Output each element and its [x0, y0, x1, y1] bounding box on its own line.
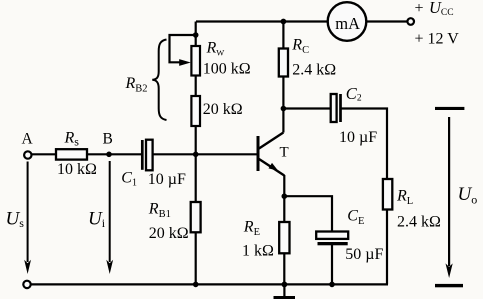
ammeter mA [328, 2, 367, 41]
capacitor CE bottom plate [318, 242, 348, 245]
capacitor C1 right plate (hollow) [146, 140, 153, 171]
node supply bus junction dot [281, 19, 287, 25]
capacitor C2 left plate (hollow) [331, 94, 337, 122]
svg-text:C1: C1 [121, 170, 137, 189]
wire collector node to C2 [283, 107, 330, 109]
svg-text:C2: C2 [346, 84, 362, 104]
resistor Rs [56, 149, 87, 159]
svg-text:RL: RL [396, 188, 413, 208]
wire emitter node to CE top [284, 196, 332, 231]
wire RE bottom to ground bus [283, 253, 285, 284]
arrow Us [27, 162, 29, 263]
svg-text:Rs: Rs [64, 130, 80, 149]
svg-text:+UCC: +UCC [415, 0, 454, 18]
ground symbol [274, 296, 296, 299]
wire bottom ground bus [31, 283, 388, 285]
node RE ground junction dot [282, 282, 288, 288]
resistor RB1 [191, 202, 201, 232]
svg-text:10 kΩ: 10 kΩ [57, 161, 97, 178]
capacitor C2 right plate [339, 94, 342, 122]
svg-text:+ 12 V: + 12 V [415, 31, 460, 48]
wire RL bottom to ground bus [386, 210, 388, 285]
node base junction dot [193, 152, 199, 158]
svg-text:2.4 kΩ: 2.4 kΩ [292, 62, 336, 79]
resistor RE [279, 222, 289, 253]
wire emitter down to RE [283, 175, 285, 222]
capacitor C1 left plate [141, 140, 144, 170]
svg-text:RE: RE [243, 219, 260, 239]
transistor T collector lead [259, 133, 283, 149]
svg-text:RB2: RB2 [125, 75, 148, 95]
svg-text:Uo: Uo [458, 184, 478, 207]
node B junction dot [106, 152, 112, 158]
node collector junction dot [281, 106, 287, 112]
arrow Ui [109, 161, 111, 262]
wire RB1 top [195, 154, 197, 202]
node RB1 ground junction dot [193, 282, 199, 288]
svg-text:RW: RW [206, 40, 225, 58]
svg-text:RC: RC [291, 37, 309, 57]
terminal A circle [24, 151, 31, 158]
wire top supply bus [196, 20, 408, 22]
potentiometer wiper arm wire [170, 35, 196, 62]
resistor RC [279, 49, 288, 77]
svg-text:50 µF: 50 µF [345, 246, 383, 263]
svg-text:10 µF: 10 µF [148, 171, 186, 188]
potentiometer wiper arrowhead [179, 59, 191, 66]
svg-text:CE: CE [347, 208, 364, 228]
capacitor CE top plate (hollow) [316, 232, 348, 239]
output terminal top bar [435, 107, 464, 110]
transistor T emitter arrowhead [269, 163, 279, 171]
svg-text:10 µF: 10 µF [339, 129, 377, 146]
svg-text:Us: Us [6, 208, 25, 230]
transistor T emitter lead [259, 159, 284, 176]
svg-text:Ui: Ui [88, 208, 106, 230]
svg-text:20 kΩ: 20 kΩ [149, 225, 189, 242]
wire Rs to C1 left plate [87, 153, 141, 155]
resistor 20k upper bias [191, 96, 200, 126]
terminal +Ucc circle [407, 18, 414, 25]
wire C1 to transistor base [153, 153, 257, 155]
wire RW bottom to 20k top [195, 76, 197, 97]
resistor RL [383, 179, 392, 210]
svg-text:2.4 kΩ: 2.4 kΩ [397, 214, 441, 231]
brace for RB2 [152, 40, 166, 121]
wire C2 right to output branch corner [342, 109, 388, 180]
svg-text:100 kΩ: 100 kΩ [203, 61, 251, 78]
wire 20k bottom to base node [195, 126, 197, 154]
svg-text:1 kΩ: 1 kΩ [242, 243, 274, 260]
svg-text:T: T [280, 145, 289, 161]
wire RB1 bottom [195, 232, 197, 284]
wire input A to Rs [32, 153, 57, 155]
wire from top bus corner down to RW [195, 22, 197, 47]
transistor T base bar [257, 136, 260, 171]
node: wiper junction dot [193, 32, 199, 38]
terminal bottom-left circle [23, 281, 30, 288]
node emitter junction dot [282, 193, 288, 199]
wire ground stub [283, 284, 285, 296]
svg-text:B: B [103, 131, 113, 148]
svg-text:mA: mA [335, 14, 360, 33]
arrow Uo [448, 117, 450, 266]
svg-text:20 kΩ: 20 kΩ [203, 101, 243, 118]
node CE ground junction dot [329, 282, 335, 288]
wire CE bottom to ground bus [331, 245, 333, 284]
resistor RW (potentiometer body) [191, 46, 200, 76]
output terminal bottom bar [435, 284, 463, 287]
svg-text:A: A [22, 131, 34, 148]
wire RC bottom to collector node [282, 77, 284, 133]
wire collector: RC top to supply bus [282, 22, 284, 49]
svg-text:RB1: RB1 [148, 201, 171, 221]
